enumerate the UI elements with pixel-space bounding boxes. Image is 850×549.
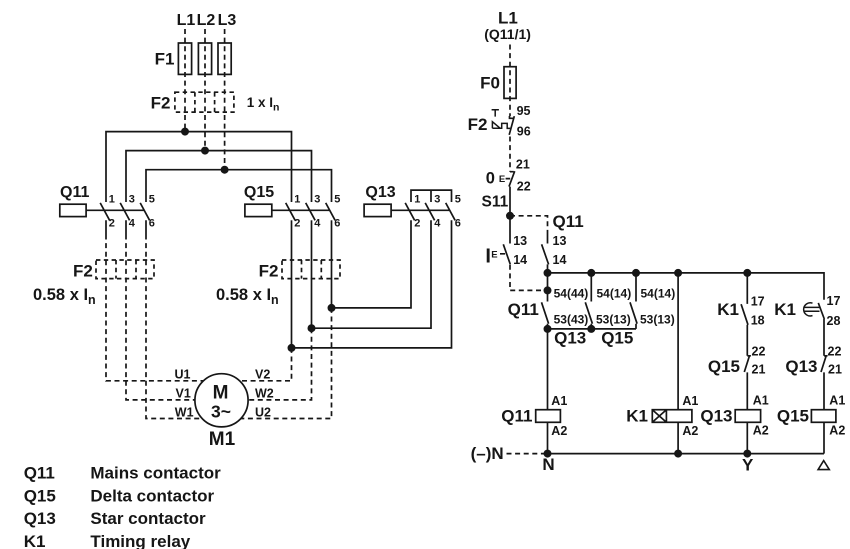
svg-text:F2: F2 [259,262,279,281]
wire Q11-4 to motor V1 dashed [126,235,195,400]
svg-text:Q13: Q13 [365,184,395,201]
svg-text:Q15: Q15 [244,184,274,201]
svg-text:U1: U1 [175,367,191,381]
svg-text:17: 17 [751,294,765,308]
svg-text:Delta contactor: Delta contactor [90,487,214,506]
svg-text:V1: V1 [176,386,191,400]
svg-text:F2: F2 [468,115,488,134]
svg-text:F2: F2 [73,262,93,281]
wire Q13-6 to node V2 [292,220,452,348]
wire Q15 coil to rail [823,422,825,453]
wire L2 drop dashed [204,29,206,151]
junction bus aux B [587,269,595,277]
svg-text:L1: L1 [177,12,196,29]
svg-text:K1: K1 [626,406,648,425]
wire Q15-6 down [331,220,333,308]
aux contact Q15 54-53 [630,273,637,329]
svg-text:Q11: Q11 [24,464,55,483]
junction bus Q11 [544,269,552,277]
aux contact Q11 13-14 [542,232,549,273]
svg-text:I: I [485,246,491,268]
junction I branch join [544,286,552,294]
time delay symbol K1 [804,303,820,316]
test button T of F2 [492,110,499,117]
wire control bus [548,273,825,300]
wire Q13-2 to node U2 [332,220,412,308]
svg-text:L1: L1 [498,9,518,28]
svg-text:1 x In: 1 x In [247,95,280,114]
svg-text:6: 6 [149,218,155,230]
wire branch to Q11 aux dashed [510,216,548,232]
svg-text:53(13): 53(13) [596,312,631,326]
svg-text:2: 2 [294,218,300,230]
coil Q15 [811,410,836,423]
svg-text:5: 5 [455,194,461,206]
svg-text:21: 21 [828,363,842,377]
svg-text:A1: A1 [753,394,769,408]
motor M1 circle [195,374,248,427]
svg-text:F1: F1 [155,50,175,69]
svg-text:Timing relay: Timing relay [90,532,190,549]
svg-text:53(43): 53(43) [554,312,589,326]
svg-text:96: 96 [517,125,531,139]
svg-text:U2: U2 [255,405,271,419]
wire L1 drop dashed [184,29,186,132]
svg-text:A2: A2 [829,424,845,438]
junction bus K1 coil [674,269,682,277]
junction node V2 [288,344,296,352]
overload relay F2 box Q11 branch [96,260,154,279]
wire K1 coil to rail [677,422,679,453]
svg-text:K1: K1 [774,300,796,319]
svg-text:53(13): 53(13) [640,312,675,326]
wire Q13-4 to node W2 [312,220,432,328]
junction aux bottom A [544,325,552,333]
svg-text:(–)N: (–)N [471,444,504,463]
svg-text:0.58 x In: 0.58 x In [33,286,96,307]
svg-text:Q15: Q15 [24,487,56,506]
junction S11 branch [506,212,514,220]
svg-text:5: 5 [334,194,340,206]
junction rail K1 [674,450,682,458]
svg-text:22: 22 [828,344,842,358]
svg-text:1: 1 [109,194,115,206]
contact Q15 pole 1-2 [286,203,295,220]
wire F2 to stop button dashed [509,137,511,172]
svg-text:Q11: Q11 [508,300,539,319]
svg-text:4: 4 [129,218,136,230]
junction aux bottom B [587,325,595,333]
svg-text:3: 3 [314,194,320,206]
wire node V2 to motor dashed [239,348,291,381]
svg-text:(Q11/1): (Q11/1) [484,26,531,42]
svg-text:S11: S11 [482,194,509,211]
contact Q11 pole 1-2 [100,203,109,235]
wire Q15-4 down [311,220,313,328]
svg-text:14: 14 [553,253,567,267]
coil Q13 [735,410,760,423]
svg-text:Q15: Q15 [708,357,740,376]
svg-text:Q13: Q13 [785,357,817,376]
contactor Q15 actuator box [245,204,330,216]
svg-text:22: 22 [752,344,766,358]
svg-text:21: 21 [752,363,766,377]
svg-text:L2: L2 [197,12,216,29]
wire bottom rail [543,453,824,455]
aux contact Q13 54-53 [585,273,592,329]
junction node W2 [308,324,316,332]
svg-text:Q13: Q13 [24,509,56,528]
svg-text:Mains contactor: Mains contactor [90,464,221,483]
wire Q11 coil to rail [547,422,549,453]
wire Q15-2 down [291,220,293,348]
wire Q13 coil to rail [746,422,748,453]
wire stop to S11 node [509,187,511,216]
svg-text:22: 22 [517,180,531,194]
node delta symbol [818,461,829,470]
wire node W2 to motor dashed [248,328,311,400]
wire feed H3 L3 to Q11-5 and Q15-5 [146,170,332,202]
svg-text:Q11: Q11 [60,184,89,201]
svg-text:6: 6 [455,218,461,230]
contact Q15 pole 3-4 [306,203,315,220]
svg-text:K1: K1 [24,532,46,549]
svg-text:14: 14 [513,253,527,267]
coil Q11 [536,410,561,423]
svg-text:0: 0 [486,170,495,188]
junction L1 feed [181,128,189,136]
svg-text:18: 18 [751,313,765,327]
contactor Q11 actuator box [60,204,144,216]
wire to Q11 coil [547,329,549,410]
NC contact Q15 22-21 [744,356,751,410]
svg-text:3~: 3~ [211,402,231,422]
contact Q15 pole 5-6 [326,203,335,220]
svg-text:W1: W1 [175,405,194,419]
svg-text:E: E [491,249,497,260]
svg-text:F0: F0 [480,74,500,93]
svg-text:54(14): 54(14) [641,287,676,301]
svg-text:Q13: Q13 [554,328,586,347]
junction rail N [544,450,552,458]
fuse F1 pole 3 [218,43,231,74]
svg-text:17: 17 [827,294,841,308]
svg-text:13: 13 [553,234,567,248]
NC contact Q13 22-21 [821,356,828,410]
wire aux bottom link [548,328,637,330]
svg-text:M1: M1 [209,429,236,450]
svg-text:28: 28 [827,314,841,328]
svg-text:A2: A2 [682,424,698,438]
svg-text:1: 1 [414,194,420,206]
svg-text:Y: Y [742,455,754,474]
svg-text:M: M [213,383,229,404]
svg-text:21: 21 [516,158,530,172]
wire Q11-6 to motor W1 dashed [146,235,202,419]
svg-text:54(14): 54(14) [597,287,632,301]
svg-text:N: N [542,455,554,474]
wire L1 to F0 dashed [509,45,511,117]
svg-text:Q13: Q13 [700,406,732,425]
junction bus K1 contact [743,269,751,277]
start button I NO contact 13-14 [500,244,510,264]
contact Q11 pole 3-4 [120,203,129,235]
overload NC contact F2 95-96 [509,116,514,135]
fuse F0 [504,67,516,99]
junction bus aux C [632,269,640,277]
stop button 0 NC contact 21-22 [506,171,515,186]
wire K1 coil branch [677,273,679,410]
svg-text:3: 3 [434,194,440,206]
wire feed H1 L1 to Q11-1 and Q15-1 [106,132,292,202]
wire feed H2 L2 to Q11-3 and Q15-3 [126,151,312,202]
svg-text:2: 2 [109,218,115,230]
trip paddle F2 [492,122,510,129]
coil K1 timing relay [652,410,692,423]
wire node U2 to motor dashed [241,308,332,419]
svg-text:A1: A1 [551,394,567,408]
svg-text:A2: A2 [753,424,769,438]
wire stub I contact [509,216,511,244]
svg-text:A2: A2 [551,424,567,438]
wire Q11-2 to motor U1 dashed [106,235,204,381]
svg-text:Q11: Q11 [501,406,532,425]
junction L2 feed [201,147,209,155]
svg-text:3: 3 [129,194,135,206]
overload relay F2 heater box [175,92,234,112]
aux contact Q11 54-53 [542,273,549,329]
contact Q11 pole 5-6 [140,203,149,235]
svg-text:0.58 x In: 0.58 x In [216,286,279,307]
svg-text:95: 95 [517,104,531,118]
fuse F1 pole 1 [178,43,191,74]
svg-text:E: E [499,174,505,185]
contact Q13 pole 3-4 [425,203,434,220]
svg-text:Q15: Q15 [601,328,633,347]
svg-text:L3: L3 [218,12,237,29]
junction rail Y [743,450,751,458]
timed contact K1 17-28 [818,303,824,356]
svg-text:1: 1 [294,194,300,206]
svg-text:4: 4 [314,218,321,230]
contact Q13 pole 5-6 [446,203,455,220]
svg-text:F2: F2 [151,94,171,113]
svg-text:2: 2 [414,218,420,230]
wire L3 drop dashed [224,29,226,170]
contact Q13 pole 1-2 [405,203,414,220]
svg-text:5: 5 [149,194,155,206]
svg-text:V2: V2 [255,367,270,381]
contact K1 17-18 [741,273,748,356]
svg-text:54(44): 54(44) [554,287,589,301]
svg-text:Q11: Q11 [553,212,584,231]
svg-text:13: 13 [513,234,527,248]
overload relay F2 box Q15 branch [282,260,340,279]
svg-text:K1: K1 [717,300,739,319]
junction L3 feed [221,166,229,174]
svg-text:6: 6 [334,218,340,230]
svg-text:4: 4 [434,218,441,230]
junction node U2 [328,304,336,312]
wire I to bus dashed [510,265,543,291]
fuse F1 pole 2 [198,43,211,74]
svg-text:Star contactor: Star contactor [90,509,206,528]
svg-text:A1: A1 [682,394,698,408]
star bridge wire Q13 top [411,190,452,202]
contactor Q13 actuator box [364,204,449,216]
svg-text:A1: A1 [829,394,845,408]
svg-text:W2: W2 [255,386,274,400]
svg-text:Q15: Q15 [777,406,809,425]
wire neutral dashed [507,453,544,455]
